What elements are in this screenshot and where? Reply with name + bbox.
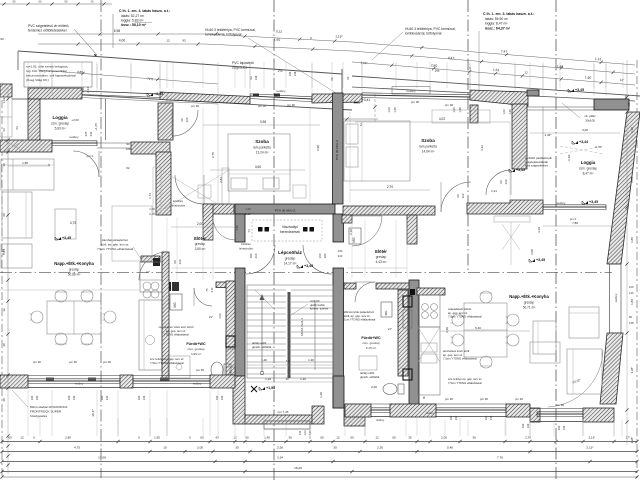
svg-text:pm 90: pm 90 <box>191 104 199 108</box>
svg-text:1,19°: 1,19° <box>2 97 6 104</box>
svg-text:30: 30 <box>2 343 6 347</box>
svg-text:140: 140 <box>526 423 530 428</box>
svg-text:pm 90: pm 90 <box>33 360 41 364</box>
svg-text:236: 236 <box>126 147 131 151</box>
svg-text:1,36: 1,36 <box>235 225 239 231</box>
svg-text:1,60: 1,60 <box>274 37 281 41</box>
svg-text:1,80: 1,80 <box>630 177 634 183</box>
svg-text:2,80: 2,80 <box>431 63 438 67</box>
svg-text:2,10: 2,10 <box>349 229 353 235</box>
svg-text:10: 10 <box>163 446 167 450</box>
svg-text:1,0: 1,0 <box>286 359 290 363</box>
svg-text:ferdemez elötöltetésekkel: ferdemez elötöltetésekkel <box>28 29 67 33</box>
svg-text:2,30: 2,30 <box>377 446 383 450</box>
svg-text:Loggia: Loggia <box>581 160 596 165</box>
svg-text:lombkosárral, túlfolyóval: lombkosárral, túlfolyóval <box>405 32 442 36</box>
svg-text:Elötér: Elötér <box>375 249 387 254</box>
svg-text:13,24 m²: 13,24 m² <box>256 151 269 155</box>
svg-text:80: 80 <box>629 315 632 319</box>
svg-text:5,40: 5,40 <box>475 326 481 330</box>
svg-text:redöny: redöny <box>426 411 435 415</box>
svg-text:12: 12 <box>2 308 6 312</box>
svg-text:Lépcsöház: Lépcsöház <box>278 250 302 255</box>
svg-text:6,15 m²: 6,15 m² <box>366 346 376 350</box>
svg-text:43: 43 <box>215 436 219 440</box>
svg-text:100: 100 <box>30 395 34 400</box>
svg-text:Szoba: Szoba <box>255 139 269 144</box>
svg-text:210: 210 <box>254 253 258 258</box>
svg-text:1,20: 1,20 <box>300 377 306 381</box>
svg-text:17,08: 17,08 <box>98 456 106 460</box>
svg-text:100: 100 <box>215 395 219 400</box>
svg-text:90: 90 <box>180 118 184 122</box>
svg-text:60: 60 <box>200 436 204 440</box>
svg-text:3,00: 3,00 <box>530 249 534 255</box>
svg-text:100: 100 <box>449 415 453 420</box>
svg-text:redöny: redöny <box>193 382 202 386</box>
svg-text:61: 61 <box>346 76 350 80</box>
svg-text:10,47: 10,47 <box>91 409 95 417</box>
svg-text:gipszk. elöfétfal: gipszk. elöfétfal <box>360 375 380 379</box>
svg-text:1,73: 1,73 <box>148 193 152 199</box>
svg-text:3,38: 3,38 <box>445 327 449 333</box>
svg-text:kéresz. szerint: kéresz. szerint <box>310 307 328 311</box>
svg-text:Loggia: Loggia <box>52 115 68 120</box>
svg-text:(Üveg-Világ Kft.): (Üveg-Világ Kft.) <box>26 78 49 82</box>
svg-text:2,28°: 2,28° <box>630 437 634 444</box>
svg-text:össz.: 64,37 m²: össz.: 64,37 m² <box>485 27 511 31</box>
svg-text:4,43 m²: 4,43 m² <box>376 260 387 264</box>
svg-text:pm 90: pm 90 <box>103 360 111 364</box>
svg-text:21°: 21° <box>146 270 150 274</box>
svg-text:60: 60 <box>350 436 354 440</box>
svg-text:12: 12 <box>20 436 24 440</box>
svg-text:2,70: 2,70 <box>525 436 531 440</box>
svg-text:140: 140 <box>489 415 493 420</box>
svg-text:m=1,02, öthö szines befogóas,: m=1,02, öthö szines befogóas, <box>26 65 68 69</box>
svg-text:90: 90 <box>499 180 503 184</box>
svg-text:210: 210 <box>338 254 343 258</box>
svg-text:210: 210 <box>318 253 322 258</box>
svg-text:1,03: 1,03 <box>303 430 307 436</box>
svg-text:pm 90: pm 90 <box>69 360 77 364</box>
svg-text:63: 63 <box>2 128 6 132</box>
svg-text:50,86 m²: 50,86 m² <box>68 273 81 277</box>
svg-text:loggia: 5,83 m²: loggia: 5,83 m² <box>121 19 144 23</box>
svg-text:10: 10 <box>285 377 289 381</box>
svg-text:1,21: 1,21 <box>491 189 497 193</box>
svg-text:redöny: redöny <box>614 293 618 302</box>
svg-text:Fürdö+WC: Fürdö+WC <box>186 342 206 346</box>
svg-text:2,00: 2,00 <box>197 446 203 450</box>
svg-text:2,00: 2,00 <box>371 385 377 389</box>
svg-text:30: 30 <box>472 436 476 440</box>
svg-text:140: 140 <box>105 395 109 400</box>
svg-text:-0,7%: -0,7% <box>594 145 602 149</box>
svg-text:60: 60 <box>245 436 249 440</box>
svg-text:2,13°: 2,13° <box>588 436 596 440</box>
svg-text:6,33: 6,33 <box>2 249 6 255</box>
svg-text:74: 74 <box>247 229 251 233</box>
svg-text:pm 90: pm 90 <box>411 100 420 104</box>
svg-text:1,95: 1,95 <box>154 436 160 440</box>
svg-text:60: 60 <box>2 213 6 217</box>
svg-text:100: 100 <box>100 395 104 400</box>
svg-text:21°: 21° <box>388 327 392 331</box>
svg-text:greslap: greslap <box>285 257 296 261</box>
svg-text:pm 90: pm 90 <box>287 103 295 107</box>
svg-text:csm. greslap: csm. greslap <box>51 122 69 126</box>
svg-text:+3,41: +3,41 <box>362 98 370 102</box>
svg-text:210: 210 <box>185 117 189 122</box>
svg-text:+3,60: +3,60 <box>71 118 79 122</box>
svg-text:30: 30 <box>333 446 337 450</box>
svg-text:höszivattyú: höszivattyú <box>282 225 298 229</box>
svg-text:höszigetelés: höszigetelés <box>30 414 48 418</box>
svg-text:90: 90 <box>228 370 232 374</box>
svg-text:greslap: greslap <box>376 255 387 259</box>
svg-text:+3,45: +3,45 <box>589 200 598 204</box>
svg-text:2,80: 2,80 <box>65 436 71 440</box>
svg-text:4,80: 4,80 <box>77 70 84 74</box>
svg-text:2,98: 2,98 <box>316 145 320 151</box>
svg-text:C lh. 1. em. 3. lakás haszn. a: C lh. 1. em. 3. lakás haszn. a.t.: <box>483 12 534 16</box>
svg-text:75: 75 <box>205 288 209 292</box>
svg-text:7,47: 7,47 <box>501 49 508 53</box>
svg-text:2,00: 2,00 <box>441 436 447 440</box>
svg-text:72 5: 72 5 <box>147 77 153 81</box>
svg-text:pm 90: pm 90 <box>515 397 523 401</box>
svg-text:7,5cm YTONG elfalazással: 7,5cm YTONG elfalazással <box>443 357 477 361</box>
svg-text:100: 100 <box>521 423 525 428</box>
svg-text:60: 60 <box>320 436 324 440</box>
svg-text:pm 7,45: pm 7,45 <box>278 410 289 414</box>
svg-text:12: 12 <box>233 436 237 440</box>
svg-text:greslap: greslap <box>195 242 206 246</box>
svg-text:1,12: 1,12 <box>595 57 602 61</box>
svg-text:kamhai páraelszívó: kamhai páraelszívó <box>102 238 128 242</box>
svg-text:körll. ép. gép. tem sz.: körll. ép. gép. tem sz. <box>101 243 130 247</box>
svg-text:vb. pillér: vb. pillér <box>584 114 595 118</box>
svg-text:2,10: 2,10 <box>245 212 251 216</box>
svg-text:1,20: 1,20 <box>308 358 314 362</box>
svg-text:lam.parketta: lam.parketta <box>253 146 271 150</box>
svg-text:YTONG elfalazással: YTONG elfalazással <box>163 333 189 337</box>
svg-text:25: 25 <box>627 102 631 106</box>
svg-text:5,22: 5,22 <box>276 29 283 33</box>
svg-text:pm 90: pm 90 <box>445 103 454 107</box>
svg-text:+3,45: +3,45 <box>516 168 525 172</box>
svg-text:140: 140 <box>454 415 458 420</box>
svg-text:belczmosudárm. solt kapaszkodó: belczmosudárm. solt kapaszkodóval <box>26 74 76 78</box>
svg-text:3,34: 3,34 <box>277 456 283 460</box>
svg-text:7,5cm YTONG elfalazással: 7,5cm YTONG elfalazással <box>448 381 482 385</box>
svg-text:PTH 30 AKU-Z: PTH 30 AKU-Z <box>275 208 296 212</box>
svg-text:pm 90: pm 90 <box>196 368 204 372</box>
svg-text:HL60.3 tetöfehlya, PVC keimúva: HL60.3 tetöfehlya, PVC keimúval, <box>405 27 456 31</box>
svg-text:7,5cm YTONG elfalazással: 7,5cm YTONG elfalazással <box>448 315 482 319</box>
svg-text:MG: MG <box>173 302 177 308</box>
svg-text:2: 2 <box>360 123 362 127</box>
svg-text:3,12: 3,12 <box>480 145 484 151</box>
svg-text:redöny: redöny <box>557 201 566 205</box>
svg-text:93: 93 <box>0 37 4 41</box>
svg-text:1,90: 1,90 <box>585 75 592 79</box>
svg-text:16,20: 16,20 <box>294 466 302 470</box>
svg-text:pm 90: pm 90 <box>258 104 266 108</box>
svg-text:redöny: redöny <box>69 135 79 139</box>
svg-text:7,5cm YTONG elfalazással: 7,5cm YTONG elfalazással <box>150 361 184 365</box>
svg-text:236: 236 <box>89 131 93 136</box>
svg-text:12: 12 <box>375 436 379 440</box>
svg-text:lakás: 52,27 m²: lakás: 52,27 m² <box>121 14 145 18</box>
svg-text:100: 100 <box>484 415 488 420</box>
svg-text:+3,44: +3,44 <box>579 140 588 144</box>
svg-text:100: 100 <box>288 71 292 76</box>
svg-text:140: 140 <box>220 395 224 400</box>
svg-text:140: 140 <box>562 425 566 430</box>
svg-text:+1,98: +1,98 <box>266 386 275 390</box>
svg-text:redöny: redöny <box>276 89 286 93</box>
svg-text:8,47 m²: 8,47 m² <box>583 172 594 176</box>
svg-text:3,28°: 3,28° <box>630 367 634 374</box>
svg-text:rag. bizt. üveg korlátmezökkel: rag. bizt. üveg korlátmezökkel <box>26 69 67 73</box>
svg-text:140: 140 <box>629 291 634 295</box>
svg-text:148: 148 <box>293 71 297 76</box>
svg-text:62: 62 <box>126 166 130 170</box>
svg-text:+3,45: +3,45 <box>536 258 545 262</box>
svg-text:csm. greslap: csm. greslap <box>579 167 597 171</box>
svg-text:+3,45: +3,45 <box>154 92 163 96</box>
svg-text:2%: 2% <box>435 69 440 73</box>
svg-text:100: 100 <box>338 249 343 253</box>
svg-text:93: 93 <box>182 39 186 43</box>
svg-text:2,13°: 2,13° <box>586 446 594 450</box>
svg-text:pm 90: pm 90 <box>445 397 453 401</box>
svg-text:4,02: 4,02 <box>439 117 445 121</box>
svg-text:50,71 m²: 50,71 m² <box>523 306 536 310</box>
svg-text:4,00: 4,00 <box>119 39 126 43</box>
svg-text:210: 210 <box>461 193 465 198</box>
svg-text:1,46: 1,46 <box>458 107 462 113</box>
svg-text:kerti szigeteléshez: kerti szigeteléshez <box>525 164 549 168</box>
svg-text:14,17 m²: 14,17 m² <box>284 262 297 266</box>
svg-text:4,75: 4,75 <box>74 446 80 450</box>
svg-text:12: 12 <box>524 70 528 74</box>
svg-text:1,58: 1,58 <box>22 161 28 165</box>
svg-text:90: 90 <box>456 194 460 198</box>
svg-text:gipszk. elöfétfal: gipszk. elöfétfal <box>252 345 272 349</box>
svg-text:1,53: 1,53 <box>493 68 500 72</box>
svg-text:1,46: 1,46 <box>393 107 397 113</box>
svg-text:143: 143 <box>298 430 302 435</box>
svg-text:5,83 m²: 5,83 m² <box>55 127 66 131</box>
svg-text:148: 148 <box>254 75 258 80</box>
svg-text:4,75: 4,75 <box>70 221 76 225</box>
svg-text:Napp.+Étk.+Konyha: Napp.+Étk.+Konyha <box>54 261 94 266</box>
svg-text:4,47: 4,47 <box>448 56 455 60</box>
svg-text:pm 90: pm 90 <box>480 397 488 401</box>
svg-text:140: 140 <box>35 395 39 400</box>
svg-text:12: 12 <box>166 39 170 43</box>
svg-text:210: 210 <box>504 179 508 184</box>
svg-text:225: 225 <box>84 131 88 136</box>
svg-text:100: 100 <box>629 285 634 289</box>
svg-text:1,20: 1,20 <box>265 377 271 381</box>
svg-text:MG: MG <box>384 310 388 315</box>
svg-text:kötöltés: kötöltés <box>173 199 184 203</box>
svg-text:lam.parketta: lam.parketta <box>419 145 437 149</box>
svg-text:PVC lapostetö: PVC lapostetö <box>232 61 254 65</box>
svg-text:Szoba: Szoba <box>421 138 435 143</box>
svg-text:1,46: 1,46 <box>508 109 512 115</box>
svg-text:100: 100 <box>323 253 327 258</box>
svg-text:1,50: 1,50 <box>452 107 456 113</box>
svg-text:Napp.+Étk.+Konyha: Napp.+Étk.+Konyha <box>509 294 549 299</box>
svg-text:7,5cm YTONG elhászással: 7,5cm YTONG elhászással <box>97 247 133 251</box>
svg-text:35: 35 <box>408 436 412 440</box>
svg-text:60: 60 <box>8 436 12 440</box>
svg-text:30: 30 <box>288 436 292 440</box>
svg-text:2,10: 2,10 <box>630 127 634 133</box>
svg-text:90: 90 <box>249 76 253 79</box>
svg-text:1cm YTONG elfalazással: 1cm YTONG elfalazással <box>344 318 376 322</box>
svg-text:2,75: 2,75 <box>211 152 215 158</box>
svg-text:7,76: 7,76 <box>497 456 503 460</box>
svg-text:2,70: 2,70 <box>387 185 393 189</box>
svg-text:redöny: redöny <box>376 418 385 422</box>
svg-text:MG: MG <box>352 237 356 243</box>
svg-text:loggia: 8,47 m²: loggia: 8,47 m² <box>485 22 508 26</box>
svg-text:1,20: 1,20 <box>261 358 267 362</box>
svg-text:3,10: 3,10 <box>537 227 541 233</box>
svg-text:140: 140 <box>72 395 76 400</box>
svg-text:4,10: 4,10 <box>81 87 85 93</box>
svg-text:Elötér: Elötér <box>194 236 206 241</box>
svg-text:2,83: 2,83 <box>219 177 223 183</box>
svg-text:140: 140 <box>142 395 146 400</box>
svg-text:2,50: 2,50 <box>277 446 283 450</box>
svg-text:5,98: 5,98 <box>114 29 121 33</box>
svg-text:greslap: greslap <box>524 301 535 305</box>
svg-text:30: 30 <box>2 163 6 167</box>
svg-text:63: 63 <box>15 126 19 130</box>
svg-text:pm 90: pm 90 <box>556 403 564 407</box>
svg-text:1,00: 1,00 <box>387 107 391 113</box>
svg-text:1,19°: 1,19° <box>335 34 343 38</box>
svg-text:kötöltés: kötöltés <box>241 242 251 246</box>
svg-text:1,20: 1,20 <box>319 392 323 398</box>
svg-text:PVC szigetelésü vb elöletö,: PVC szigetelésü vb elöletö, <box>28 24 69 28</box>
svg-text:lehatárolás: lehatárolás <box>171 204 186 208</box>
svg-text:-0,4%: -0,4% <box>567 154 571 162</box>
svg-text:1,88: 1,88 <box>557 64 564 68</box>
svg-text:148: 148 <box>629 321 634 325</box>
svg-text:30: 30 <box>2 398 6 402</box>
svg-text:csm. greslap: csm. greslap <box>187 347 204 351</box>
svg-text:3,80 m²: 3,80 m² <box>195 247 206 251</box>
svg-text:4,60: 4,60 <box>255 165 261 169</box>
svg-text:csm. greslap: csm. greslap <box>362 341 379 345</box>
svg-text:1,00: 1,00 <box>218 313 222 319</box>
svg-text:1,40: 1,40 <box>264 436 270 440</box>
svg-text:1,80: 1,80 <box>630 237 634 243</box>
svg-text:100: 100 <box>249 253 253 258</box>
svg-text:90: 90 <box>173 260 177 264</box>
svg-text:Fürdö+WC: Fürdö+WC <box>361 336 381 340</box>
svg-text:3,00: 3,00 <box>582 128 588 132</box>
svg-text:HL60.3 tetöfehlya, PVC keimúva: HL60.3 tetöfehlya, PVC keimúval, <box>205 28 256 32</box>
svg-text:össz.: 58,10 m²: össz.: 58,10 m² <box>121 23 147 27</box>
svg-text:80cm sávban ROCKWOOL: 80cm sávban ROCKWOOL <box>30 405 68 409</box>
svg-text:PTH 30 AKU-Z: PTH 30 AKU-Z <box>335 140 339 160</box>
svg-text:2,00: 2,00 <box>197 222 203 226</box>
svg-text:greslap: greslap <box>69 268 80 272</box>
svg-text:210: 210 <box>210 287 214 292</box>
svg-text:1,00: 1,00 <box>245 207 251 211</box>
svg-text:lehatárolás: lehatárolás <box>239 247 253 251</box>
svg-text:1,80: 1,80 <box>630 299 634 305</box>
svg-text:30x100: 30x100 <box>585 119 595 123</box>
svg-text:90: 90 <box>126 142 130 146</box>
svg-text:7,80: 7,80 <box>572 221 578 225</box>
svg-text:4,95 m²: 4,95 m² <box>191 352 201 356</box>
svg-text:redöny: redöny <box>75 382 84 386</box>
svg-text:1,00: 1,00 <box>502 109 506 115</box>
svg-text:21°: 21° <box>209 315 213 319</box>
svg-text:1,10°: 1,10° <box>360 61 368 66</box>
svg-text:14,64 m²: 14,64 m² <box>422 150 435 154</box>
svg-text:C lh. 1. em. 4. lakás haszn. a: C lh. 1. em. 4. lakás haszn. a.t.: <box>119 9 170 13</box>
svg-text:1,43°: 1,43° <box>544 133 552 137</box>
svg-text:+3,45: +3,45 <box>575 88 584 92</box>
svg-text:lakás: 55,90 m²: lakás: 55,90 m² <box>485 17 509 21</box>
svg-text:100: 100 <box>557 425 561 430</box>
svg-text:FRONTROCK SUPER: FRONTROCK SUPER <box>30 410 62 414</box>
svg-text:+1,65: +1,65 <box>94 123 98 131</box>
svg-text:30: 30 <box>235 446 239 450</box>
svg-text:60: 60 <box>392 436 396 440</box>
svg-text:berendezések: berendezések <box>280 230 300 234</box>
svg-text:18x16,7x31,1: 18x16,7x31,1 <box>300 318 304 336</box>
svg-text:5,40: 5,40 <box>447 446 453 450</box>
svg-text:12: 12 <box>336 436 340 440</box>
svg-text:100: 100 <box>67 395 71 400</box>
svg-text:3,98: 3,98 <box>260 120 266 124</box>
svg-text:redöny: redöny <box>406 89 416 93</box>
svg-text:100: 100 <box>137 395 141 400</box>
svg-text:+3,45: +3,45 <box>62 236 71 240</box>
svg-text:2,34: 2,34 <box>86 87 90 93</box>
svg-text:210: 210 <box>178 259 182 264</box>
